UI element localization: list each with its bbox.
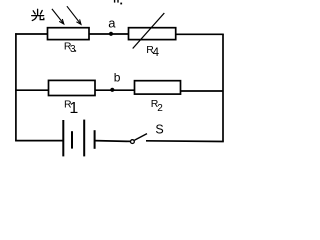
wire top-right segment <box>176 33 224 35</box>
label R4 <box>146 44 159 59</box>
wire left vertical <box>15 33 17 141</box>
svg-text:2: 2 <box>157 103 163 114</box>
label R1 <box>64 99 78 118</box>
rheostat R4 <box>129 13 176 49</box>
switch S lever <box>134 134 147 141</box>
node a <box>109 32 113 36</box>
switch S pivot <box>131 140 135 144</box>
resistor R2 <box>135 81 181 94</box>
resistor R1 <box>49 80 96 95</box>
svg-text:1: 1 <box>69 100 78 117</box>
label R3 <box>64 41 76 56</box>
battery cell 1 long plate <box>62 120 64 156</box>
node b <box>110 88 114 92</box>
label 光 <box>32 9 44 20</box>
light arrow 1 <box>52 9 64 24</box>
svg-text:S: S <box>155 123 163 137</box>
cropped text fragment top edge <box>115 0 123 4</box>
wire top-middle segment <box>89 33 129 35</box>
light arrow 2 <box>67 6 81 24</box>
wire middle-left segment <box>15 89 48 91</box>
svg-text:4: 4 <box>153 47 160 59</box>
svg-text:b: b <box>114 71 121 85</box>
resistor R3 <box>48 28 90 40</box>
wire top-left segment <box>15 33 47 35</box>
label S <box>155 123 163 137</box>
battery cell 2 long plate <box>83 120 85 157</box>
wire bottom-left segment <box>15 140 63 142</box>
label b <box>114 71 121 85</box>
wire battery to switch <box>95 140 131 143</box>
battery cell 1 short plate <box>71 131 73 148</box>
label R2 <box>151 98 163 114</box>
label a <box>108 16 116 31</box>
wire switch to bottom-right <box>146 140 224 143</box>
svg-text:3: 3 <box>70 44 76 55</box>
svg-text:a: a <box>108 16 116 31</box>
wire middle-right segment <box>181 90 224 92</box>
wire right vertical <box>222 34 224 141</box>
battery cell 2 short plate <box>94 130 96 149</box>
wire middle-centre segment <box>95 89 135 91</box>
